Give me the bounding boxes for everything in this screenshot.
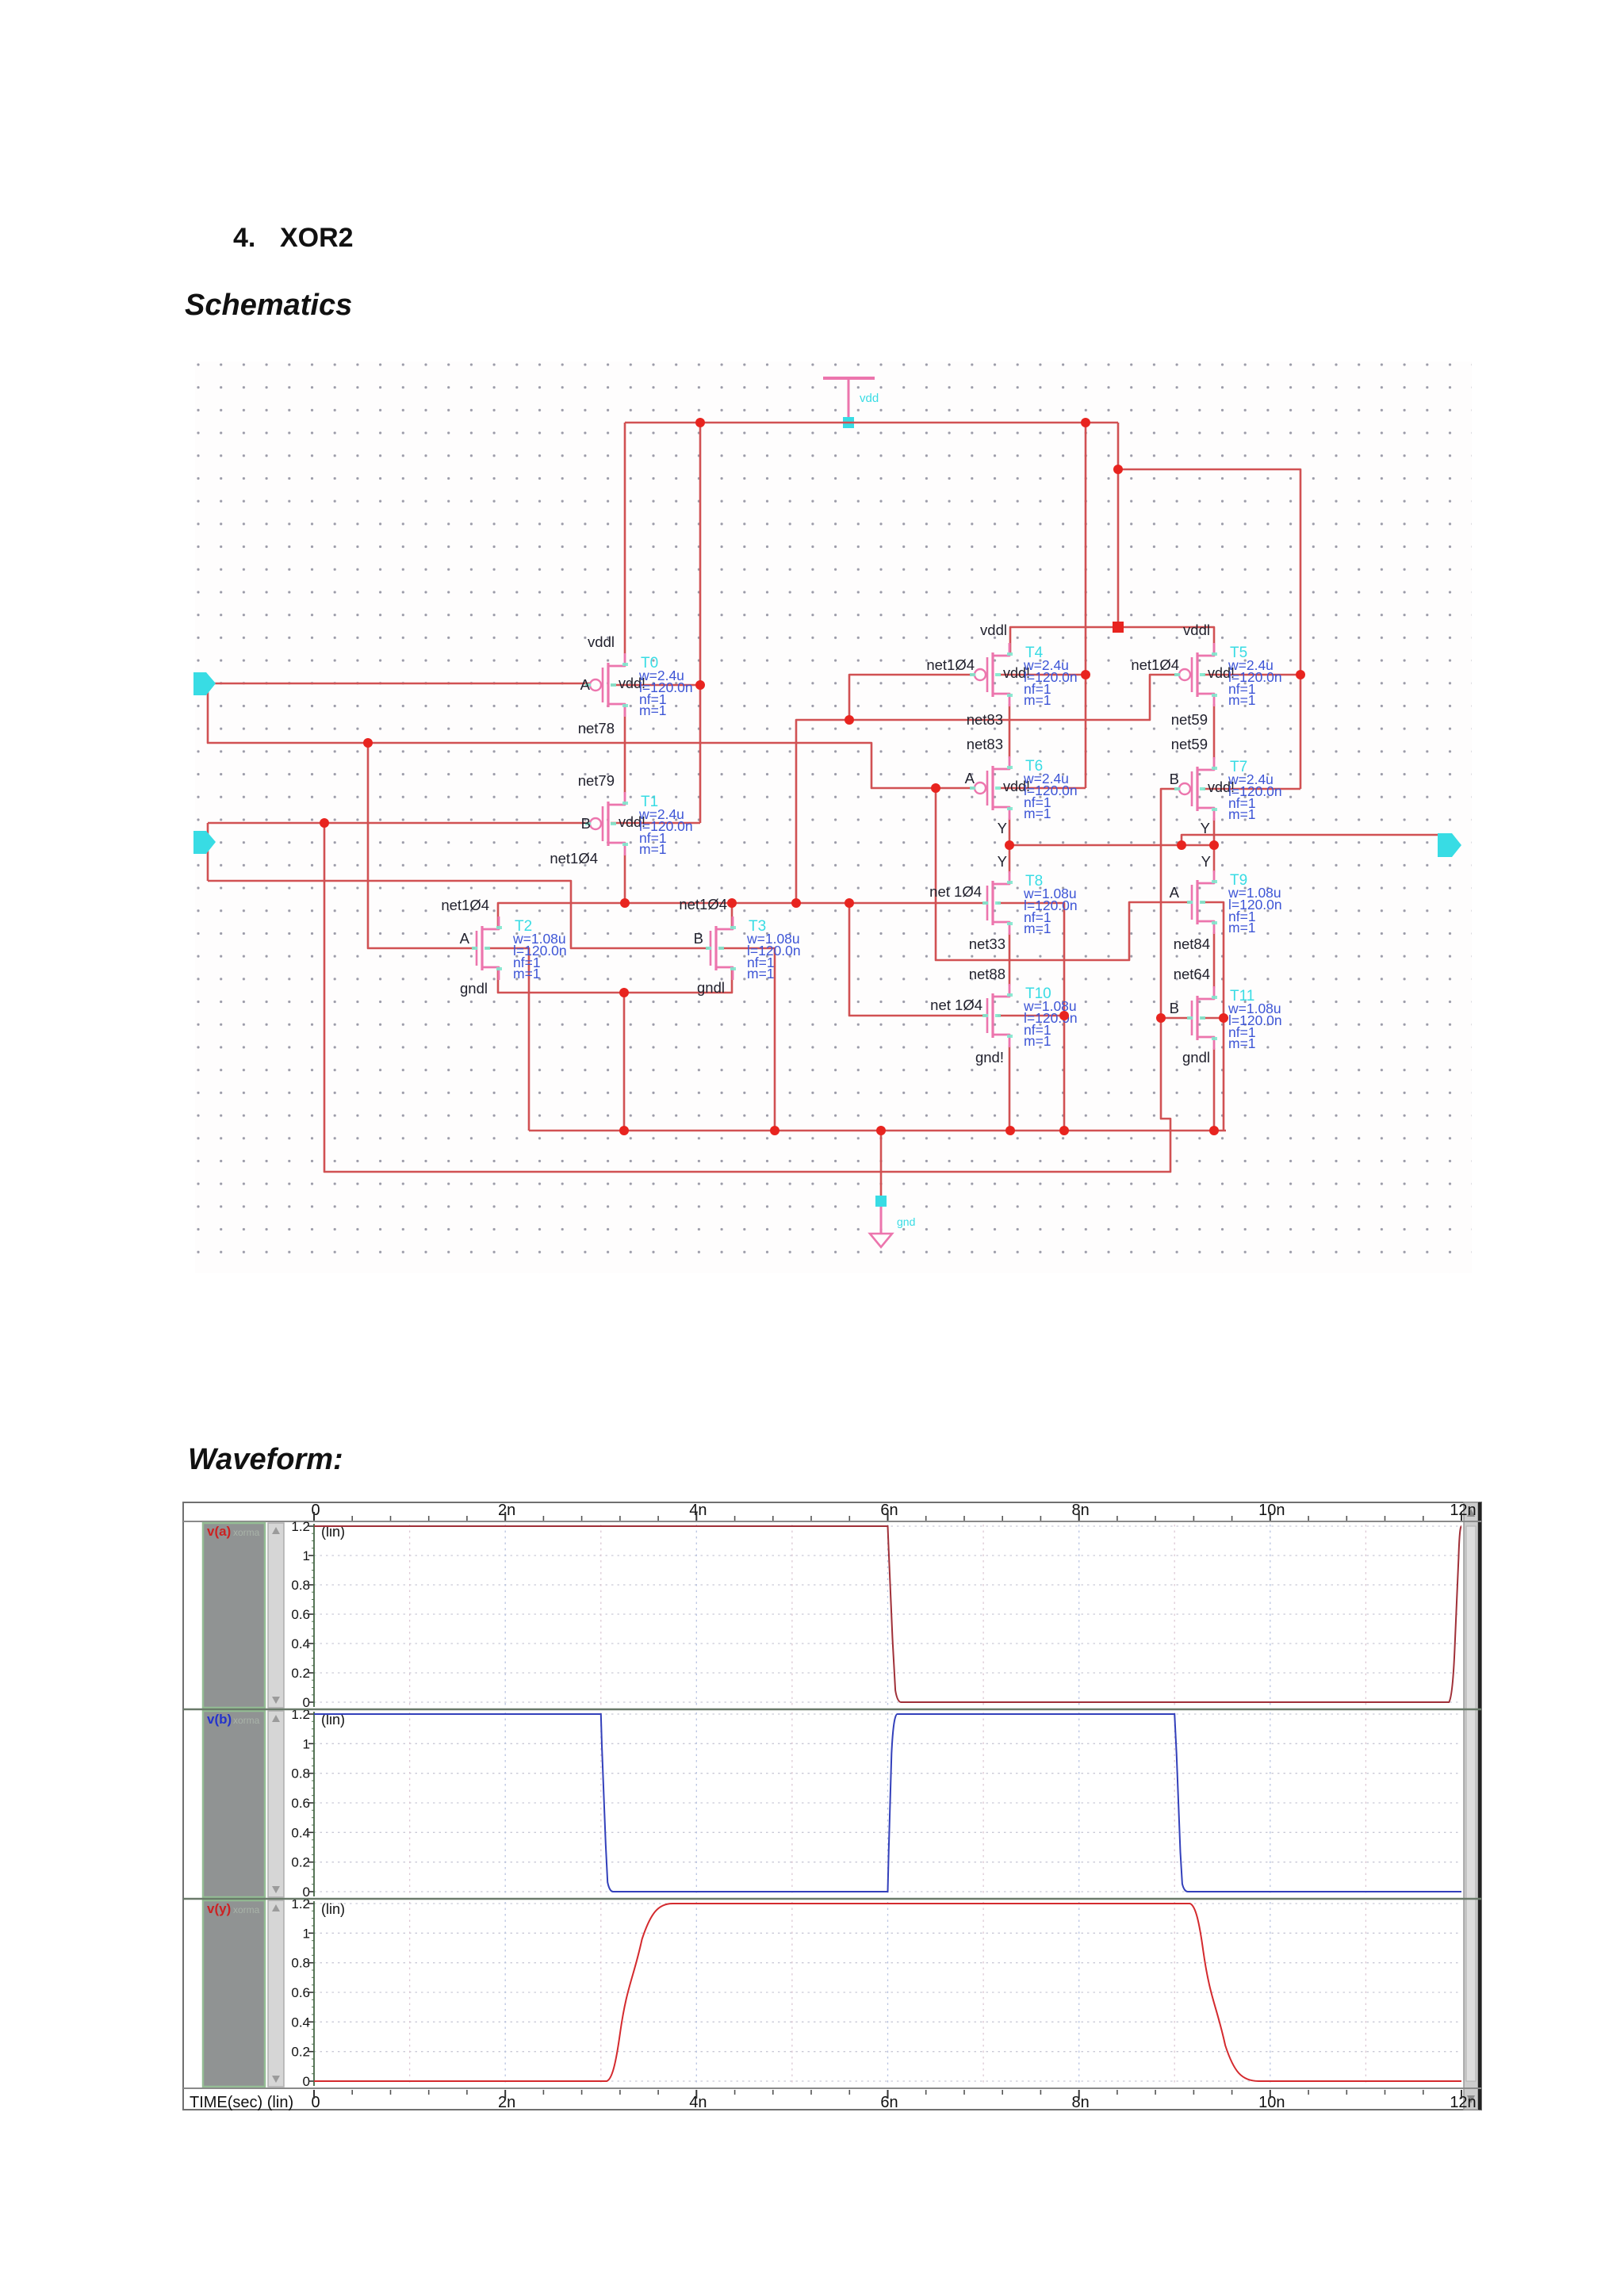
- net label net83: [967, 736, 1003, 752]
- svg-text:0.4: 0.4: [291, 1825, 310, 1840]
- wire T9 source / T11 drain (net64): [1213, 932, 1216, 988]
- svg-text:TIME(sec) (lin): TIME(sec) (lin): [190, 2094, 293, 2111]
- transistor T7 (PMOS): [1174, 757, 1282, 822]
- wire Y to output port: [1182, 835, 1439, 845]
- junction T11 bulk: [1219, 1013, 1228, 1023]
- svg-text:m=1: m=1: [1228, 692, 1256, 708]
- transistor T10 (NMOS): [982, 984, 1078, 1049]
- transistor T11 (NMOS): [1187, 986, 1282, 1051]
- transistor T5 (PMOS): [1174, 643, 1282, 708]
- svg-text:4.: 4.: [233, 223, 255, 253]
- svg-text:net1Ø4: net1Ø4: [679, 896, 727, 913]
- transistor T3 (NMOS): [706, 916, 801, 982]
- wire T9 drain to Y bus: [1213, 845, 1216, 872]
- svg-text:net1Ø4: net1Ø4: [926, 656, 975, 673]
- svg-text:B: B: [581, 815, 591, 832]
- wire vdd right drop to vddl rail: [1117, 423, 1120, 627]
- net label net59: [1171, 736, 1208, 752]
- wire vdd top rail: [625, 422, 1118, 424]
- wire T1 bulk stub: [611, 822, 700, 825]
- svg-text:A: A: [1170, 884, 1180, 901]
- svg-text:(lin): (lin): [321, 1901, 345, 1917]
- net label net59: [1171, 711, 1208, 728]
- net label net83: [967, 711, 1003, 728]
- svg-text:0.2: 0.2: [291, 2045, 310, 2060]
- svg-text:A: A: [965, 770, 975, 786]
- wire B long return to T7/T11 gates: [324, 789, 1179, 1172]
- net label net84: [1174, 936, 1210, 952]
- wire Y bus: [1009, 844, 1214, 847]
- svg-text:net79: net79: [578, 772, 615, 789]
- svg-text:0.2: 0.2: [291, 1666, 310, 1681]
- junction net B branch: [320, 818, 329, 828]
- svg-text:xorma: xorma: [233, 1715, 260, 1726]
- net label A: [460, 930, 470, 947]
- svg-text:Y: Y: [1201, 820, 1210, 836]
- svg-text:net83: net83: [967, 736, 1003, 752]
- junction net A / T2 gate branch: [363, 738, 373, 748]
- net label B: [694, 930, 703, 947]
- wire input B vertical: [207, 823, 209, 881]
- svg-text:A: A: [580, 676, 591, 693]
- junction T1 drain on net104 bus: [620, 898, 630, 908]
- svg-text:xorma: xorma: [233, 1904, 260, 1915]
- svg-text:vdd: vdd: [860, 392, 879, 405]
- waveform top axis: [183, 1502, 1481, 1521]
- svg-text:Y: Y: [1201, 853, 1211, 870]
- net label net64: [1174, 966, 1210, 982]
- wire T10 source to ground bus: [1009, 1046, 1011, 1131]
- transistor T2 (NMOS): [472, 916, 567, 982]
- junction T11 gate: [1156, 1013, 1166, 1023]
- net label vddl: [1183, 622, 1210, 638]
- svg-text:gndl: gndl: [1182, 1049, 1210, 1066]
- junction ground bus / T8 T10 bulk: [1059, 1126, 1069, 1135]
- input port A: [193, 672, 216, 695]
- svg-text:0: 0: [311, 2094, 320, 2111]
- net label gndl: [460, 980, 488, 997]
- waveform signal panel v(b): [203, 1707, 1461, 1900]
- svg-text:Schematics: Schematics: [185, 289, 352, 322]
- net label net79: [578, 772, 615, 789]
- wire T4 bulk stub: [1001, 674, 1086, 676]
- svg-text:12n: 12n: [1450, 2094, 1476, 2111]
- junction ground bus / gndl: [619, 1126, 629, 1135]
- gnd ground symbol: [870, 1196, 915, 1247]
- net label net1Ø4: [441, 897, 489, 913]
- output port Y: [1438, 833, 1461, 857]
- svg-text:8n: 8n: [1072, 1502, 1090, 1519]
- svg-text:A: A: [460, 930, 470, 947]
- svg-text:0.6: 0.6: [291, 1607, 310, 1622]
- waveform panel separators: [183, 1709, 1481, 1710]
- wire T7 bulk stub: [1204, 788, 1300, 790]
- svg-text:m=1: m=1: [1024, 1033, 1051, 1049]
- svg-text:m=1: m=1: [1024, 692, 1051, 708]
- svg-text:net1Ø4: net1Ø4: [550, 850, 598, 867]
- wire B lower run to T3 gate: [208, 881, 709, 948]
- svg-text:gnd!: gnd!: [975, 1049, 1004, 1066]
- svg-text:vddl: vddl: [980, 622, 1007, 638]
- net label A: [1170, 884, 1180, 901]
- junction net104 / T4 gate tap: [845, 715, 854, 725]
- svg-text:6n: 6n: [880, 1502, 898, 1519]
- transistor T6 (PMOS): [970, 756, 1078, 821]
- junction net104 riser: [791, 898, 801, 908]
- wire input A to T0 gate: [213, 683, 590, 685]
- wire T8/T10 bulk to ground bus: [998, 903, 1064, 1131]
- svg-text:4n: 4n: [689, 1502, 707, 1519]
- svg-text:gndl: gndl: [460, 980, 488, 997]
- svg-text:net88: net88: [969, 966, 1005, 982]
- net label net1Ø4: [1131, 656, 1179, 673]
- net label net33: [969, 936, 1005, 952]
- svg-text:0.8: 0.8: [291, 1766, 310, 1781]
- waveform v(y) trace: [314, 1904, 1461, 2081]
- net label net1Ø4: [550, 850, 598, 867]
- junction Y bus output tap: [1177, 840, 1186, 850]
- svg-text:m=1: m=1: [513, 966, 541, 982]
- wire vdd branch to T0/T1 bulk: [699, 423, 702, 823]
- svg-text:gndl: gndl: [697, 979, 725, 996]
- junction T3 drain on net104 bus: [727, 898, 737, 908]
- wire ground bus to gnd symbol: [880, 1131, 883, 1202]
- net label net78: [578, 720, 615, 737]
- wire net104 riser to T4/T5 gates: [796, 675, 1178, 903]
- wire T5 drain to T7 source (net59): [1213, 704, 1216, 759]
- wire gndl down to ground bus: [623, 993, 626, 1131]
- junction Y bus T7/T9: [1209, 840, 1219, 850]
- net label Y: [1201, 820, 1210, 836]
- wire A down and across (net A): [208, 683, 975, 788]
- wire T6 bulk stub: [1001, 787, 1086, 790]
- transistor T8 (NMOS): [982, 871, 1078, 936]
- svg-text:gnd: gnd: [897, 1215, 915, 1228]
- svg-text:net1Ø4: net1Ø4: [1131, 656, 1179, 673]
- junction T0 bulk: [695, 680, 705, 690]
- square junction vddl rail: [1113, 622, 1124, 633]
- net label gndl: [697, 979, 725, 996]
- svg-text:m=1: m=1: [1024, 920, 1051, 936]
- svg-text:net78: net78: [578, 720, 615, 737]
- svg-text:net 1Ø4: net 1Ø4: [929, 883, 982, 900]
- wire T11 source to ground bus: [1213, 1048, 1216, 1131]
- schematic dotted grid background: [195, 362, 1472, 1273]
- net label Y: [998, 853, 1007, 870]
- svg-text:B: B: [694, 930, 703, 947]
- junction Y bus T6/T8: [1005, 840, 1014, 850]
- svg-text:v(a): v(a): [207, 1524, 231, 1539]
- wire net104 bus: [498, 903, 987, 930]
- wire T5 bulk stub: [1204, 674, 1300, 676]
- wire A branch down to pass-gate and T9 gate: [936, 788, 1190, 960]
- svg-text:m=1: m=1: [1228, 806, 1256, 822]
- svg-text:8n: 8n: [1072, 2094, 1090, 2111]
- wire T0 bulk stub: [611, 684, 700, 687]
- svg-text:0.6: 0.6: [291, 1985, 310, 2000]
- junction net104 T10 drop: [845, 898, 854, 908]
- transistor T9 (NMOS): [1187, 871, 1282, 936]
- net label B: [1170, 771, 1179, 787]
- wire T7 drain to Y bus: [1213, 818, 1216, 845]
- wire T3 drain to net104 bus: [731, 903, 733, 930]
- junction gndl wire: [619, 988, 629, 997]
- svg-text:0: 0: [311, 1502, 320, 1519]
- net label A: [580, 676, 591, 693]
- junction T10 bulk: [1059, 1011, 1069, 1020]
- net label net1Ø4: [926, 656, 975, 673]
- input port B: [193, 831, 216, 854]
- waveform right scrollbar: [1464, 1502, 1481, 2110]
- wire T9/T11 bulk to ground bus: [1201, 902, 1224, 1131]
- svg-text:net64: net64: [1174, 966, 1210, 982]
- svg-text:12n: 12n: [1450, 1502, 1476, 1519]
- svg-text:net59: net59: [1171, 736, 1208, 752]
- net label vddl: [980, 622, 1007, 638]
- wire T8 drain to Y bus: [1009, 845, 1011, 873]
- net label gndl: [1182, 1049, 1210, 1066]
- svg-text:net59: net59: [1171, 711, 1208, 728]
- wire T0 source to vdd rail: [624, 423, 626, 653]
- svg-text:v(b): v(b): [207, 1712, 232, 1727]
- junction T5 bulk: [1296, 670, 1305, 679]
- svg-text:net1Ø4: net1Ø4: [441, 897, 489, 913]
- waveform signal panel v(y): [203, 1896, 1461, 2089]
- svg-text:m=1: m=1: [747, 966, 775, 982]
- wire T1 drain to net104 bus: [624, 855, 626, 903]
- junction vdd rail2 tap: [1113, 465, 1123, 474]
- wire T4 drain to T6 source (net83): [1009, 704, 1011, 758]
- junction ground bus / gnd symbol: [876, 1126, 886, 1135]
- wire T4 gate tap: [849, 675, 974, 720]
- wire net78 T0 drain to T1 source: [624, 704, 626, 793]
- wire B to T1 gate: [208, 822, 590, 825]
- svg-text:0.8: 0.8: [291, 1956, 310, 1971]
- svg-text:2n: 2n: [498, 1502, 515, 1519]
- net label vddl: [588, 633, 615, 650]
- waveform panel frame: [183, 1502, 1481, 2110]
- svg-text:10n: 10n: [1258, 2094, 1285, 2111]
- net label Y: [1201, 853, 1211, 870]
- wire vddl rail for T4 T5 sources: [1010, 627, 1214, 653]
- wire gndl T2/T3 sources: [498, 967, 732, 993]
- junction T4 bulk: [1081, 670, 1090, 679]
- wire T11 gate stub: [1161, 1017, 1190, 1020]
- svg-text:B: B: [1170, 771, 1179, 787]
- junction net A / pass-gate branch: [931, 783, 940, 793]
- svg-text:2n: 2n: [498, 2094, 515, 2111]
- svg-text:XOR2: XOR2: [280, 223, 354, 253]
- transistor T4 (PMOS): [970, 643, 1078, 708]
- vdd supply symbol: [823, 378, 879, 428]
- waveform v(b) trace: [314, 1714, 1461, 1892]
- waveform bottom time axis: [183, 2088, 1481, 2111]
- net label net88: [969, 966, 1005, 982]
- svg-text:0.2: 0.2: [291, 1855, 310, 1870]
- waveform v(a) trace: [314, 1526, 1461, 1702]
- net label B: [1170, 1000, 1179, 1016]
- junction vdd rail / T4 branch: [1081, 418, 1090, 427]
- junction ground bus / T11 source: [1209, 1126, 1219, 1135]
- junction ground bus / T10 source: [1005, 1126, 1015, 1135]
- svg-text:m=1: m=1: [1228, 920, 1256, 936]
- waveform signal panel v(a): [203, 1519, 1461, 1710]
- svg-text:Y: Y: [998, 853, 1007, 870]
- junction vdd rail / T0 bulk branch: [695, 418, 705, 427]
- svg-text:0.6: 0.6: [291, 1796, 310, 1811]
- svg-text:m=1: m=1: [1024, 806, 1051, 821]
- junction ground bus / T3 bulk: [770, 1126, 779, 1135]
- svg-text:net83: net83: [967, 711, 1003, 728]
- svg-text:m=1: m=1: [1228, 1035, 1256, 1051]
- svg-text:B: B: [1170, 1000, 1179, 1016]
- wire T11 bulk stub: [1201, 1017, 1224, 1020]
- svg-text:vddl: vddl: [588, 633, 615, 650]
- wire vdd branch to T4/T6 bulk: [1085, 423, 1087, 788]
- net label gnd!: [975, 1049, 1004, 1066]
- svg-text:vddl: vddl: [1183, 622, 1210, 638]
- wire T3 bulk to ground bus: [719, 948, 775, 1131]
- svg-text:Y: Y: [998, 820, 1007, 836]
- svg-text:0.4: 0.4: [291, 2015, 310, 2030]
- svg-text:m=1: m=1: [639, 702, 667, 718]
- transistor T1 (PMOS): [585, 792, 693, 857]
- net label net 1Ø4: [929, 883, 982, 900]
- svg-text:1.2: 1.2: [291, 1519, 310, 1534]
- net label Y: [998, 820, 1007, 836]
- net label B: [581, 815, 591, 832]
- svg-text:Waveform:: Waveform:: [188, 1443, 343, 1476]
- wire T8 source / T10 drain (net88): [1009, 933, 1011, 985]
- svg-text:net 1Ø4: net 1Ø4: [930, 997, 982, 1013]
- net label net 1Ø4: [930, 997, 982, 1013]
- svg-text:0.8: 0.8: [291, 1578, 310, 1593]
- svg-text:4n: 4n: [689, 2094, 707, 2111]
- svg-text:net33: net33: [969, 936, 1005, 952]
- svg-text:xorma: xorma: [233, 1527, 260, 1538]
- wire vdd upper right run: [1118, 469, 1300, 789]
- svg-text:net84: net84: [1174, 936, 1210, 952]
- svg-text:m=1: m=1: [639, 841, 667, 857]
- svg-text:10n: 10n: [1258, 1502, 1285, 1519]
- wire T6 drain to Y bus: [1009, 818, 1011, 845]
- svg-text:v(y): v(y): [207, 1901, 231, 1916]
- svg-text:6n: 6n: [880, 2094, 898, 2111]
- wire A branch to T2 gate: [368, 743, 475, 948]
- wire T10 bulk stub: [998, 1015, 1064, 1017]
- wire ground bus: [529, 1130, 1226, 1132]
- transistor T0 (PMOS): [585, 653, 693, 718]
- net label A: [965, 770, 975, 786]
- wire net104 drop to T10 gate: [849, 903, 987, 1016]
- wire T2 bulk to ground bus: [485, 948, 529, 1131]
- net label net1Ø4: [679, 896, 727, 913]
- svg-text:0.4: 0.4: [291, 1636, 310, 1651]
